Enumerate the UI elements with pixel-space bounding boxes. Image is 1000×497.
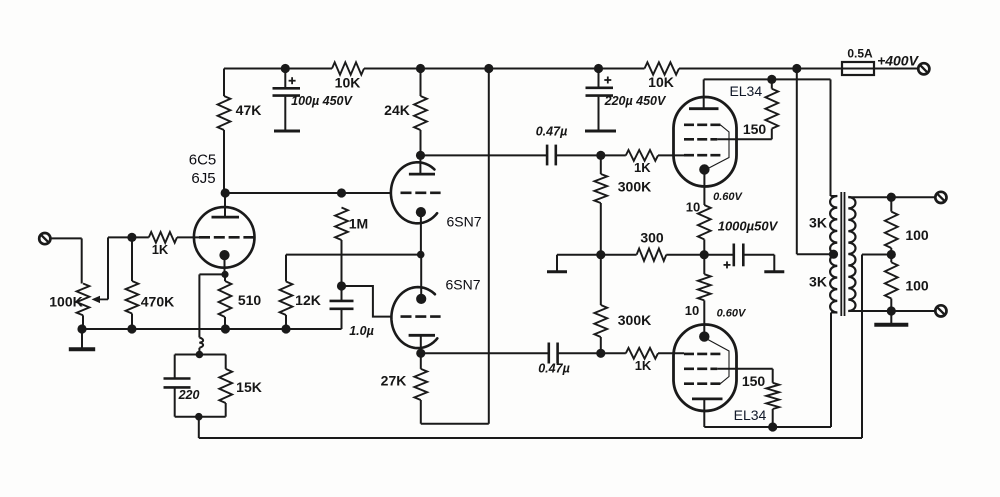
- wire ground bus: [82, 328, 342, 330]
- ground main: [81, 329, 83, 348]
- node 6SN7 lower plate: [416, 349, 425, 358]
- tube V2 plate: [409, 173, 435, 176]
- resistor R 470K: [131, 237, 133, 281]
- svg-text:300K: 300K: [618, 179, 651, 195]
- node feedback network top: [196, 351, 204, 359]
- svg-text:6J5: 6J5: [191, 170, 215, 187]
- svg-text:3K: 3K: [809, 274, 827, 290]
- tube V5 plate: [692, 397, 723, 400]
- svg-text:3K: 3K: [809, 215, 827, 231]
- wire input to pot: [50, 237, 81, 239]
- resistor R 15K: [225, 355, 227, 369]
- capacitor C 0.47u upper: [546, 145, 549, 166]
- svg-text:1.0µ: 1.0µ: [349, 324, 374, 338]
- wire OPT top lead: [830, 79, 832, 196]
- capacitor C 1000u 50V: [732, 244, 735, 267]
- svg-text:1M: 1M: [349, 216, 368, 232]
- svg-text:EL34: EL34: [734, 407, 767, 423]
- wire secondary top to output: [848, 196, 935, 198]
- resistor R 10K left: [332, 62, 364, 74]
- fuse F1 0.5A: [842, 62, 874, 75]
- svg-text:12K: 12K: [295, 292, 321, 308]
- node center tap: [829, 250, 838, 259]
- resistor R 10K right: [645, 62, 680, 74]
- resistor R 1K lower grid: [626, 348, 658, 359]
- svg-text:6C5: 6C5: [189, 151, 217, 168]
- ground mid-left: [556, 255, 558, 271]
- svg-text:300K: 300K: [618, 312, 651, 328]
- resistor R 150 lower screen: [717, 368, 772, 370]
- tube V5 suppressor tie: [706, 339, 729, 384]
- ground output: [890, 311, 892, 324]
- svg-text:24K: 24K: [384, 102, 410, 118]
- wire 6C5 cathode to feedback network: [199, 273, 225, 275]
- wire 27K to B+ riser: [420, 400, 422, 424]
- resistor R 1K upper grid: [626, 150, 658, 161]
- svg-text:220: 220: [178, 388, 200, 402]
- svg-text:EL34: EL34: [729, 83, 762, 99]
- node rail-47K junction dots: [281, 64, 290, 73]
- svg-text:0.5A: 0.5A: [847, 47, 873, 61]
- wire cap to 1K lower: [558, 352, 601, 354]
- capacitor C 220: [164, 377, 191, 380]
- resistor R 10 upper: [698, 205, 711, 239]
- resistor R 100 lower: [890, 255, 892, 263]
- resistor R 100 upper: [890, 197, 892, 211]
- wire plate to OPT top: [704, 78, 831, 80]
- resistor R 150 upper screen: [771, 79, 773, 88]
- tube V2 6SN7 upper envelope: [391, 162, 437, 223]
- resistor R 24K: [420, 69, 422, 97]
- tube V3 cathode: [416, 294, 426, 304]
- svg-text:220µ 450V: 220µ 450V: [604, 94, 667, 108]
- resistor R 510 cathode: [224, 274, 226, 281]
- capacitor C 0.47u lower: [547, 343, 550, 364]
- tube V2 grid: [401, 192, 441, 195]
- wire 6C5 plate to 47K / 6SN7 grid bus: [224, 192, 391, 194]
- resistor R 300: [637, 249, 667, 261]
- svg-text:6SN7: 6SN7: [446, 214, 481, 230]
- terminal output hot: [935, 192, 946, 203]
- svg-text:1K: 1K: [635, 358, 652, 373]
- wire plate to OPT bottom: [704, 426, 831, 428]
- wire cap to 1K upper: [556, 154, 601, 156]
- svg-text:510: 510: [238, 292, 262, 308]
- resistor R 1K grid stopper: [149, 232, 177, 243]
- node feedback bottom: [195, 413, 203, 421]
- node 1M bottom: [337, 281, 346, 290]
- wire secondary bottom to output: [848, 310, 935, 312]
- resistor R 10 lower: [703, 255, 705, 275]
- svg-text:100µ 450V: 100µ 450V: [291, 94, 353, 108]
- terminal input: [39, 233, 50, 244]
- svg-text:47K: 47K: [236, 102, 262, 118]
- tube V1 grid: [199, 236, 254, 239]
- svg-text:+400V: +400V: [877, 53, 920, 69]
- node EL34 cathode bus: [700, 250, 709, 259]
- svg-text:10K: 10K: [335, 75, 361, 91]
- svg-text:150: 150: [742, 373, 766, 389]
- tube V1 6C5/6J5 envelope: [194, 207, 255, 268]
- node 6C5 cathode junction: [221, 271, 228, 278]
- wire 6SN7 plate to coupling cap: [421, 154, 548, 156]
- resistor R 12K: [285, 255, 287, 282]
- svg-text:150: 150: [743, 121, 767, 137]
- resistor R 300K upper: [600, 155, 602, 174]
- node 24K to plate: [416, 151, 425, 160]
- resistor R 1M: [335, 208, 348, 241]
- terminal +400V: [918, 63, 929, 74]
- tube V4 grids: [684, 124, 721, 127]
- tube V4 cathode: [699, 164, 709, 174]
- wire lower plate to coupling cap: [421, 352, 549, 354]
- transformer T1 secondary winding: [848, 197, 855, 311]
- svg-text:1K: 1K: [152, 242, 169, 257]
- transformer T1 primary winding: [830, 196, 837, 313]
- wire B+ rail: [224, 68, 332, 70]
- node secondary divider junction: [887, 250, 896, 259]
- ground mid-right: [773, 255, 775, 271]
- svg-text:100: 100: [905, 227, 929, 243]
- resistor R 47K: [223, 69, 225, 97]
- tube V4 suppressor tie: [706, 125, 729, 170]
- svg-text:1K: 1K: [634, 160, 651, 175]
- wire B+ riser: [488, 69, 490, 424]
- wire 220/15K loop: [175, 354, 226, 356]
- wire primary center tap: [796, 69, 798, 255]
- tube V1 plate: [212, 216, 240, 219]
- wire OPT bottom lead: [831, 312, 837, 314]
- tube V4 EL34 upper envelope: [674, 97, 737, 187]
- svg-text:0.47µ: 0.47µ: [536, 125, 568, 139]
- capacitor C 100u 450V: [284, 69, 286, 88]
- svg-text:0.60V: 0.60V: [717, 307, 747, 319]
- svg-text:10: 10: [686, 200, 700, 215]
- wire cathode bus 6SN7: [286, 254, 421, 256]
- svg-text:15K: 15K: [236, 379, 262, 395]
- pot wiper arrow: [98, 298, 108, 300]
- resistor R 27K: [420, 353, 422, 369]
- potentiometer R 100K: [77, 284, 90, 316]
- svg-text:10: 10: [685, 303, 699, 318]
- tube V1 cathode: [219, 250, 229, 260]
- tube V5 grids: [684, 353, 721, 356]
- svg-text:100: 100: [905, 278, 929, 294]
- svg-text:27K: 27K: [381, 373, 407, 389]
- resistor R 300K lower: [600, 255, 602, 305]
- svg-text:0.60V: 0.60V: [713, 191, 743, 203]
- svg-text:300: 300: [640, 229, 664, 245]
- svg-text:470K: 470K: [141, 294, 174, 310]
- wire 1M to 6SN7-2 grid: [342, 286, 392, 317]
- tube V3 grid: [401, 315, 441, 318]
- tube V2 cathode: [416, 207, 426, 217]
- svg-text:10K: 10K: [648, 74, 674, 90]
- svg-text:1000µ50V: 1000µ50V: [718, 218, 779, 233]
- terminal output common: [935, 305, 946, 316]
- capacitor C 220u 450V: [598, 69, 600, 87]
- svg-text:6SN7: 6SN7: [445, 277, 480, 293]
- wire 1K to 6C5 grid: [177, 236, 200, 238]
- wire feedback to output: [198, 417, 200, 438]
- node wiper-470K junction: [127, 233, 136, 242]
- svg-text:100K: 100K: [49, 294, 82, 310]
- tube V5 EL34 lower envelope: [674, 325, 737, 412]
- tube V4 plate: [689, 107, 719, 110]
- wire mid bias bus: [557, 254, 637, 256]
- tube V5 cathode: [703, 300, 705, 336]
- transformer T1 core: [840, 192, 842, 316]
- tube V3 plate: [409, 334, 435, 337]
- tube V3 6SN7 lower envelope: [391, 287, 437, 348]
- svg-text:0.47µ: 0.47µ: [538, 362, 570, 376]
- wire hop squiggle: [199, 338, 203, 348]
- capacitor C 1.0u: [341, 286, 343, 300]
- node 6SN7 cathodes junction: [417, 251, 425, 259]
